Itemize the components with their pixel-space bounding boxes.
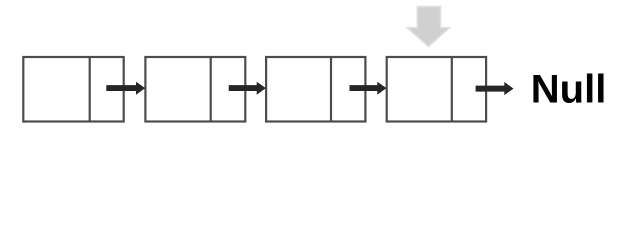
svg-text:Null: Null xyxy=(531,68,607,112)
